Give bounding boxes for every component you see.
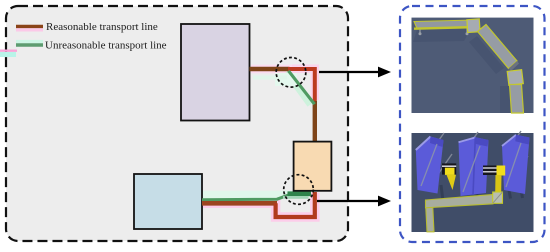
junction circle 2 xyxy=(284,175,314,205)
junction bottom xyxy=(507,70,523,86)
block buffer station xyxy=(294,142,332,191)
legend label unreasonable xyxy=(45,40,167,52)
legend swatch reasonable xyxy=(16,26,43,29)
dark legs xyxy=(441,181,523,203)
wire red detour xyxy=(276,192,315,217)
slab left xyxy=(416,137,444,194)
render bottom machining view xyxy=(412,131,534,232)
wire green diagonal xyxy=(289,71,315,104)
pole marks xyxy=(426,131,528,182)
conveyor path horizontal xyxy=(426,195,494,208)
left panel xyxy=(6,6,348,241)
halo mint diagonal xyxy=(253,73,310,106)
yellow unit 1 xyxy=(445,168,455,175)
halo pink top corner xyxy=(251,69,315,100)
striped bar 2 xyxy=(483,166,497,176)
conveyor path vertical xyxy=(426,202,435,232)
slab middle xyxy=(459,137,489,196)
legend swatch unreasonable xyxy=(16,42,43,45)
wire red corner xyxy=(288,69,315,103)
shadow diagonal xyxy=(469,36,504,74)
conveyor vertical xyxy=(510,85,524,114)
front poles xyxy=(421,143,521,192)
wire red bottom shared xyxy=(202,201,277,206)
halo mint bottom xyxy=(202,191,293,199)
block left workshop xyxy=(134,174,202,229)
shadow horizontal xyxy=(413,29,471,42)
slab right xyxy=(502,135,530,194)
conveyor diagonal xyxy=(478,25,518,69)
svg-text:Unreasonable transport line: Unreasonable transport line xyxy=(45,40,167,52)
wire green bottom xyxy=(202,195,289,200)
yellow unit 2 xyxy=(497,166,506,176)
green corner mark xyxy=(283,191,311,198)
svg-text:Reasonable transport line: Reasonable transport line xyxy=(46,21,158,33)
legend label reasonable xyxy=(46,21,158,33)
shadow vertical xyxy=(500,86,510,113)
junction circle 1 xyxy=(276,58,306,88)
junction top xyxy=(467,19,480,33)
halo pink detour xyxy=(202,193,315,218)
arrow 2 xyxy=(317,196,391,207)
right panel xyxy=(400,6,545,242)
render top conveyor view xyxy=(412,18,534,113)
conveyor corner box xyxy=(493,192,503,203)
striped bar 1 xyxy=(442,163,456,174)
wire shared top horizontal xyxy=(250,67,290,71)
wire shared vertical xyxy=(313,101,317,143)
conveyor horizontal xyxy=(414,20,477,29)
block top workshop xyxy=(181,24,250,121)
arrow 1 xyxy=(319,67,391,78)
stray mark xyxy=(0,51,17,57)
